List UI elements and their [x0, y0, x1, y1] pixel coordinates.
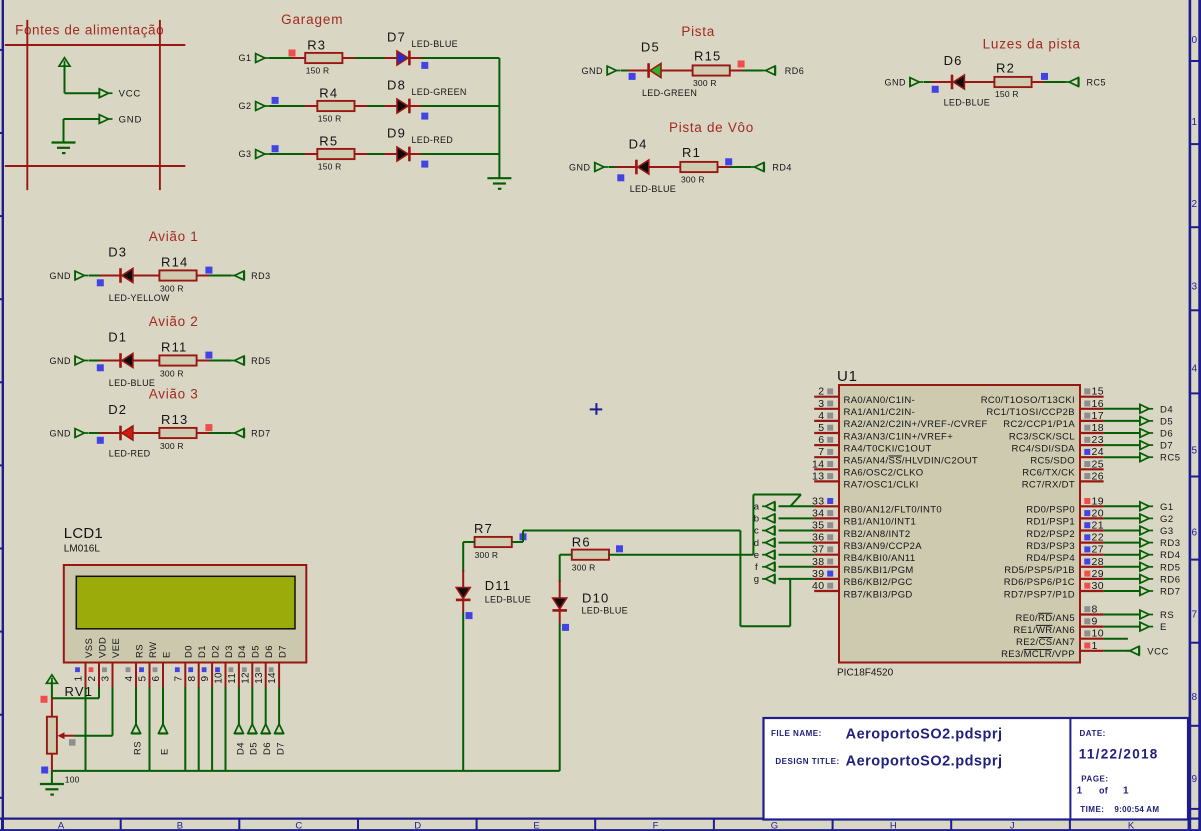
wire pin 29 to terminal RD6: [1104, 578, 1140, 580]
terminal RS at U1: [1140, 610, 1153, 619]
svg-text:26: 26: [1092, 470, 1104, 482]
LCD pin 5 stub: [149, 663, 151, 688]
wire D10 to ground bus: [559, 612, 561, 624]
svg-text:1: 1: [1192, 117, 1198, 128]
border: left row ticks: [0, 50, 4, 798]
svg-text:R4: R4: [319, 86, 338, 101]
svg-text:RA3/AN3/C1IN+/VREF+: RA3/AN3/C1IN+/VREF+: [844, 431, 954, 442]
wire segment c to pin 35: [779, 530, 815, 532]
svg-text:D: D: [414, 820, 421, 831]
svg-text:Avião 2: Avião 2: [149, 314, 199, 329]
LCD pin 6 marker: [153, 667, 158, 672]
svg-text:RB6/KBI2/PGC: RB6/KBI2/PGC: [844, 577, 913, 588]
wire segment e to pin 37: [779, 554, 815, 556]
svg-text:Fontes de alimentação: Fontes de alimentação: [15, 23, 164, 38]
svg-text:RD1/PSP1: RD1/PSP1: [1026, 517, 1075, 528]
marker blue D4: [617, 174, 624, 181]
resistor R14: [159, 270, 196, 280]
U1 pin 22 stub: [1080, 541, 1104, 543]
terminal D5 below LCD: [248, 724, 258, 734]
svg-text:g: g: [754, 574, 760, 585]
svg-text:AeroportoSO2.pdsprj: AeroportoSO2.pdsprj: [846, 754, 1003, 770]
svg-text:7: 7: [1192, 610, 1198, 621]
svg-text:RB7/KBI3/PGD: RB7/KBI3/PGD: [844, 589, 913, 600]
terminal GND luzes: [910, 77, 923, 86]
svg-text:RE1/WR/AN6: RE1/WR/AN6: [1013, 625, 1075, 636]
diode D10 (LED-BLUE): [553, 598, 567, 609]
title block box: [764, 718, 1189, 820]
wire LCD pin6 to E terminal: [162, 687, 164, 724]
terminal D4: [1140, 404, 1153, 413]
svg-text:Avião 3: Avião 3: [149, 387, 199, 402]
svg-text:RV1: RV1: [65, 684, 94, 699]
terminal VCC at U1: [1127, 646, 1140, 655]
fontes box top line: [5, 44, 186, 46]
LCD pin 3 marker: [102, 667, 107, 672]
svg-text:300 R: 300 R: [475, 550, 499, 560]
svg-text:300 R: 300 R: [160, 369, 184, 379]
svg-text:D7: D7: [277, 645, 288, 658]
svg-text:30: 30: [1092, 580, 1104, 592]
U1 pin 40 stub: [814, 590, 839, 592]
resistor R13: [159, 428, 196, 438]
svg-text:11/22/2018: 11/22/2018: [1079, 747, 1159, 762]
svg-text:RD6: RD6: [1160, 574, 1181, 585]
diode D2 (LED-RED): [119, 426, 122, 441]
svg-text:b: b: [754, 514, 760, 525]
svg-text:LED-BLUE: LED-BLUE: [582, 606, 628, 616]
U1 pin 39 stub: [814, 578, 839, 580]
svg-text:300 R: 300 R: [681, 175, 705, 185]
LCD pin 13 marker: [255, 667, 260, 672]
diode D11 (LED-BLUE): [456, 588, 470, 599]
terminal segment c: [762, 526, 775, 535]
wire LCD pin to D5 terminal: [251, 687, 253, 724]
svg-text:LED-BLUE: LED-BLUE: [412, 39, 458, 49]
U1 pin 6 marker: [827, 437, 833, 443]
svg-text:150 R: 150 R: [318, 114, 342, 124]
svg-text:RS: RS: [1160, 610, 1174, 621]
svg-text:R14: R14: [161, 255, 188, 270]
svg-text:RA7/OSC1/CLKI: RA7/OSC1/CLKI: [844, 480, 919, 491]
U1 pin 27 stub: [1080, 554, 1104, 556]
svg-text:GND: GND: [119, 115, 143, 126]
svg-text:7: 7: [173, 676, 184, 682]
U1 pin 37 marker: [827, 546, 833, 552]
sheet origin marker cross: [590, 408, 603, 410]
marker blue D2: [97, 437, 104, 444]
svg-text:9: 9: [200, 676, 211, 682]
U1 pin 9 marker: [1084, 618, 1090, 624]
U1 pin 34 marker: [827, 510, 833, 516]
fontes box bottom line: [5, 165, 186, 167]
terminal RD4: [751, 162, 764, 171]
svg-text:D7: D7: [276, 742, 287, 755]
terminal RD7: [1140, 586, 1153, 595]
marker R11: [205, 352, 212, 359]
U1 pin 25 stub: [1080, 468, 1104, 470]
U1 pin 30 stub: [1080, 590, 1104, 592]
terminal segment b: [762, 514, 775, 523]
svg-text:G1: G1: [238, 53, 251, 63]
svg-text:GND: GND: [50, 356, 72, 366]
wire LCD pin3 VEE to RV1 wiper: [112, 687, 114, 736]
marker blue D5: [629, 73, 636, 80]
U1 pin 36 stub: [814, 541, 839, 543]
border: bottom column ticks: [2, 819, 1189, 831]
wire D7 to garagem ground bus: [410, 57, 500, 59]
diode D6 (LED-BLUE): [951, 75, 954, 90]
svg-text:G3: G3: [1160, 526, 1174, 537]
svg-text:RC1/T1OSI/CCP2B: RC1/T1OSI/CCP2B: [986, 407, 1075, 418]
LCD pin 4 stub: [135, 663, 137, 688]
wire pin 16 to terminal D4: [1104, 408, 1140, 410]
wire D3 to R14: [133, 275, 160, 277]
svg-text:RC7/RX/DT: RC7/RX/DT: [1022, 480, 1075, 491]
svg-text:RA4/T0CKI/C1OUT: RA4/T0CKI/C1OUT: [844, 443, 932, 454]
svg-text:D3: D3: [224, 645, 235, 658]
svg-text:Avião 1: Avião 1: [149, 229, 199, 244]
LCD screen: [76, 576, 295, 629]
LCD pin 9 stub: [211, 663, 213, 688]
svg-text:D7: D7: [387, 30, 406, 45]
marker blue D11: [466, 612, 473, 619]
diode D7 (LED-BLUE): [397, 51, 408, 65]
svg-text:9: 9: [1192, 774, 1198, 785]
wire R1 to RD4: [718, 166, 752, 168]
svg-text:23: 23: [1092, 434, 1104, 446]
svg-text:RD5/PSP5/P1B: RD5/PSP5/P1B: [1004, 565, 1075, 576]
svg-text:G2: G2: [238, 101, 251, 111]
wire pin 17 to terminal D5: [1104, 420, 1140, 422]
svg-text:RD3: RD3: [251, 271, 271, 281]
wire pin 27 to terminal RD4: [1104, 554, 1140, 556]
IC U1 body: [839, 385, 1080, 663]
svg-text:Luzes da pista: Luzes da pista: [983, 37, 1081, 52]
U1 pin 14 stub: [814, 468, 839, 470]
svg-text:3: 3: [101, 676, 112, 682]
svg-text:RA0/AN0/C1IN-: RA0/AN0/C1IN-: [844, 395, 916, 406]
svg-text:RD5: RD5: [1160, 562, 1181, 573]
wire pin to terminal RS: [1104, 614, 1140, 616]
fontes box right line: [159, 20, 161, 190]
wire segment d to pin 36: [779, 542, 815, 544]
terminal E: [158, 724, 168, 734]
LCD pin 6 stub: [162, 663, 164, 688]
LCD pin 2 stub: [98, 663, 100, 688]
terminal RD4: [1140, 550, 1153, 559]
svg-text:150 R: 150 R: [995, 89, 1019, 99]
U1 pin 10 stub: [1080, 638, 1104, 640]
marker red R3: [289, 50, 296, 57]
power symbol VCC arrow: [59, 58, 70, 66]
wire pin 21 to terminal G3: [1104, 530, 1140, 532]
marker R13: [205, 424, 212, 431]
svg-text:LED-RED: LED-RED: [412, 135, 454, 145]
diode D1 (LED-BLUE): [119, 353, 122, 368]
U1 pin 35 stub: [814, 529, 839, 531]
svg-text:R13: R13: [161, 412, 188, 427]
wire GND to D4: [608, 166, 636, 168]
U1 pin 7 marker: [827, 449, 833, 455]
svg-text:VDD: VDD: [97, 637, 108, 658]
power symbol VCC arrow above RV1: [46, 675, 57, 684]
svg-text:150 R: 150 R: [306, 66, 330, 76]
svg-text:D7: D7: [1160, 441, 1173, 452]
LCD pin 3 stub: [112, 663, 114, 688]
svg-text:RW: RW: [148, 642, 159, 658]
wire R2 to RC5: [1032, 81, 1066, 83]
wire pin 1 to VCC terminal: [1104, 650, 1130, 652]
svg-text:22: 22: [1092, 532, 1104, 544]
U1 pin 33 marker: [827, 498, 833, 504]
svg-text:14: 14: [812, 458, 824, 470]
diode D3 (LED-YELLOW): [119, 268, 122, 283]
U1 pin 24 marker: [1084, 449, 1090, 455]
svg-text:9:00:54 AM: 9:00:54 AM: [1114, 805, 1159, 814]
U1 pin 7 stub: [814, 456, 839, 458]
U1 pin 20 stub: [1080, 517, 1104, 519]
LCD pin 12 marker: [242, 667, 247, 672]
svg-text:RD6/PSP6/P1C: RD6/PSP6/P1C: [1004, 577, 1075, 588]
U1 pin 24 stub: [1080, 456, 1104, 458]
terminal RD3: [231, 271, 244, 280]
svg-text:300 R: 300 R: [693, 78, 717, 88]
svg-text:150 R: 150 R: [318, 162, 342, 172]
svg-text:D4: D4: [235, 742, 246, 755]
svg-text:0: 0: [1192, 35, 1198, 46]
svg-text:D9: D9: [387, 126, 406, 141]
svg-text:19: 19: [1092, 495, 1104, 507]
potentiometer RV1 body: [47, 717, 57, 754]
U1 pin 29 marker: [1084, 571, 1090, 577]
U1 pin 2 marker: [827, 388, 833, 394]
terminal segment a: [762, 502, 775, 511]
svg-text:5: 5: [138, 676, 149, 682]
svg-text:AeroportoSO2.pdsprj: AeroportoSO2.pdsprj: [846, 727, 1003, 743]
LCD pin 8 stub: [198, 663, 200, 688]
wire D6 to R2: [964, 81, 994, 83]
terminal GND D1 row: [75, 356, 88, 365]
svg-text:1: 1: [1077, 786, 1083, 797]
wire pin 28 to terminal RD5: [1104, 566, 1140, 568]
terminal RD6: [1140, 574, 1153, 583]
terminal RC5: [1140, 453, 1153, 462]
svg-text:2: 2: [87, 676, 98, 682]
svg-text:300 R: 300 R: [572, 562, 596, 572]
U1 pin 26 marker: [1084, 473, 1090, 479]
svg-text:1: 1: [1092, 640, 1098, 652]
resistor R11: [159, 355, 196, 365]
title block divider: [1069, 718, 1071, 820]
U1 pin 23 marker: [1084, 437, 1090, 443]
svg-text:LED-GREEN: LED-GREEN: [642, 88, 697, 98]
svg-text:E: E: [159, 748, 170, 755]
U1 pin 18 marker: [1084, 425, 1090, 431]
U1 pin 22 marker: [1084, 534, 1090, 540]
svg-text:GND: GND: [50, 271, 72, 281]
terminal G1: [256, 53, 269, 62]
terminal RD5: [231, 356, 244, 365]
LCD pin 7 stub: [184, 663, 186, 688]
terminal segment d: [762, 538, 775, 547]
svg-text:RC5/SDO: RC5/SDO: [1030, 456, 1075, 467]
wire pin 19 to terminal G1: [1104, 505, 1140, 507]
U1 pin 25 marker: [1084, 461, 1090, 467]
wire LCD pin1 VSS to ground bus: [85, 687, 87, 771]
svg-text:R7: R7: [474, 521, 493, 536]
svg-text:13: 13: [812, 470, 824, 482]
wire D8 to garagem ground bus: [410, 105, 500, 107]
U1 pin 4 stub: [814, 420, 839, 422]
wire garagem ground bus vertical: [498, 58, 500, 178]
wire R14 to RD3: [197, 275, 232, 277]
svg-text:D3: D3: [108, 245, 127, 260]
svg-text:25: 25: [1092, 458, 1104, 470]
terminal GND pista de voo: [595, 162, 608, 171]
svg-text:4: 4: [818, 410, 824, 422]
svg-text:FILE NAME:: FILE NAME:: [771, 729, 822, 738]
svg-text:D0: D0: [184, 645, 195, 658]
terminal G1: [1140, 502, 1153, 511]
svg-text:24: 24: [1092, 446, 1104, 458]
marker blue RV1 bottom: [41, 767, 48, 774]
svg-text:10: 10: [1092, 628, 1104, 640]
wire R7 right to pin RB6 net: [512, 541, 523, 543]
svg-text:GND: GND: [50, 429, 72, 439]
wire GND to D1: [89, 360, 121, 362]
svg-text:U1: U1: [837, 368, 858, 385]
U1 pin 18 stub: [1080, 432, 1104, 434]
border: right row ticks: [1190, 61, 1201, 809]
border: row numbers 0-9: [1192, 35, 1198, 785]
U1 pin 10 marker: [1084, 630, 1090, 636]
wire segment b to pin 34: [779, 517, 815, 519]
svg-text:G3: G3: [238, 149, 251, 159]
svg-text:VEE: VEE: [111, 638, 122, 658]
U1 pin 28 marker: [1084, 559, 1090, 565]
marker red R15: [738, 61, 745, 68]
wire D9 to garagem ground bus: [410, 153, 500, 155]
resistor R1: [680, 162, 717, 172]
wire GND to D5: [621, 70, 649, 72]
U1 pin 13 stub: [814, 480, 839, 482]
border: bottom inner frame line: [0, 817, 1201, 819]
svg-text:GND: GND: [582, 66, 604, 76]
resistor R4: [317, 101, 354, 111]
U1 pin 5 stub: [814, 432, 839, 434]
svg-text:21: 21: [1092, 520, 1104, 532]
terminal G2: [256, 101, 269, 110]
svg-text:GND: GND: [885, 78, 907, 88]
svg-text:LED-BLUE: LED-BLUE: [944, 98, 990, 108]
LCD pin 5 marker: [139, 667, 144, 672]
wire VCC arrow to RV1: [51, 681, 53, 698]
LCD pin 4 marker: [126, 667, 131, 672]
svg-text:RD2/PSP2: RD2/PSP2: [1026, 529, 1075, 540]
svg-text:6: 6: [818, 434, 824, 446]
U1 pin 19 stub: [1080, 505, 1104, 507]
wire D5 to R15: [661, 70, 693, 72]
terminal RD3: [1140, 538, 1153, 547]
svg-text:LCD1: LCD1: [64, 525, 103, 542]
svg-text:D5: D5: [641, 40, 660, 55]
wire segment a to pin 33: [779, 505, 815, 507]
svg-text:RD5: RD5: [251, 356, 271, 366]
border: right inner frame line: [1189, 0, 1192, 831]
U1 pin 37 stub: [814, 554, 839, 556]
svg-text:E: E: [1160, 622, 1167, 633]
U1 pin 8 stub: [1080, 613, 1104, 615]
wire R3 to D7: [342, 57, 397, 59]
wire pin 24 to terminal RC5: [1104, 456, 1140, 458]
svg-text:6: 6: [151, 676, 162, 682]
LCD pin 2 marker: [89, 667, 94, 672]
svg-text:RD7/PSP7/P1D: RD7/PSP7/P1D: [1004, 589, 1075, 600]
LCD pin 10 stub: [225, 663, 227, 688]
LCD LM016L body: [64, 565, 306, 663]
svg-text:D5: D5: [251, 645, 262, 658]
wire R11 to RD5: [197, 360, 232, 362]
svg-text:a: a: [754, 502, 760, 513]
ground symbol in fontes box: [52, 143, 76, 154]
U1 pin 23 stub: [1080, 444, 1104, 446]
terminal segment f: [762, 562, 775, 571]
RV1 wiper arrow: [58, 732, 65, 739]
svg-text:Garagem: Garagem: [281, 12, 343, 27]
svg-text:D1: D1: [108, 330, 127, 345]
svg-text:7: 7: [818, 446, 824, 458]
svg-text:E: E: [533, 820, 539, 831]
svg-text:RB2/AN8/INT2: RB2/AN8/INT2: [844, 529, 911, 540]
U1 pin 16 stub: [1080, 408, 1104, 410]
svg-text:LED-GREEN: LED-GREEN: [412, 87, 467, 97]
svg-text:RD4/PSP4: RD4/PSP4: [1026, 553, 1075, 564]
U1 pin 1 stub: [1080, 650, 1104, 652]
svg-text:f: f: [755, 562, 758, 573]
U1 pin 28 stub: [1080, 566, 1104, 568]
U1 pin 34 stub: [814, 517, 839, 519]
svg-text:18: 18: [1092, 422, 1104, 434]
U1 pin 20 marker: [1084, 510, 1090, 516]
svg-text:RC5: RC5: [1087, 78, 1107, 88]
svg-text:GND: GND: [569, 163, 591, 173]
diode D9 (LED-RED): [397, 147, 408, 161]
svg-text:D4: D4: [237, 645, 248, 658]
svg-text:RD3/PSP3: RD3/PSP3: [1026, 541, 1075, 552]
wire G2 to R4: [269, 105, 317, 107]
svg-text:RC0/T1OSO/T13CKI: RC0/T1OSO/T13CKI: [981, 395, 1075, 406]
LCD pin 10 marker: [215, 667, 220, 672]
U1 pin 4 marker: [827, 413, 833, 419]
wire pin 18 to terminal D6: [1104, 432, 1140, 434]
terminal RD7: [231, 428, 244, 437]
marker blue D9: [421, 161, 428, 168]
svg-text:D6: D6: [264, 645, 275, 658]
U1 pin 38 marker: [827, 559, 833, 565]
ground symbol below RV1: [51, 771, 53, 784]
U1 pin 16 marker: [1084, 401, 1090, 407]
U1 pin 1 marker: [1084, 643, 1090, 649]
LCD pin 14 marker: [269, 667, 274, 672]
svg-text:RB0/AN12/FLT0/INT0: RB0/AN12/FLT0/INT0: [844, 505, 943, 516]
LCD pin 11 marker: [229, 667, 234, 672]
svg-text:c: c: [754, 526, 759, 537]
svg-text:RS: RS: [132, 741, 143, 755]
svg-text:R15: R15: [694, 49, 721, 64]
marker blue D3: [97, 279, 104, 286]
LCD pin 8 marker: [188, 667, 193, 672]
